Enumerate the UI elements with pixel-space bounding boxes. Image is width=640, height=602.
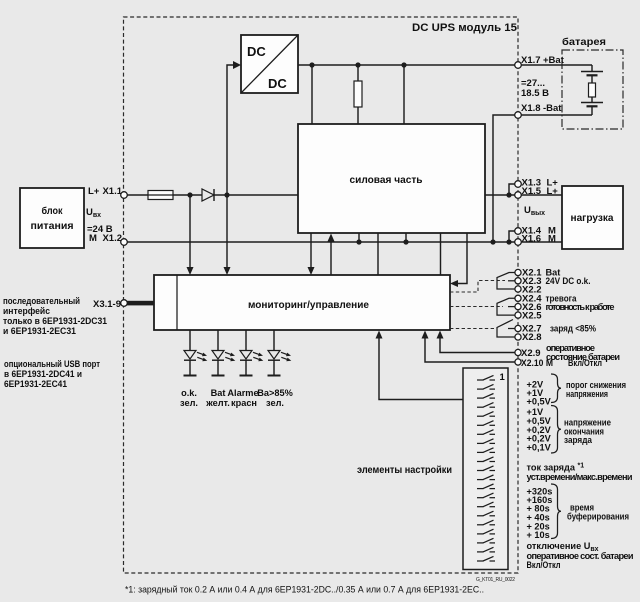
- block: силовая часть: [298, 124, 485, 233]
- wire power section to monitoring right arrow: [457, 233, 467, 284]
- dashed control line relay K3: [450, 328, 494, 330]
- DIP switch S17: [477, 520, 495, 525]
- wire DC/DC output rail to X1.7: [298, 64, 515, 66]
- svg-text:1: 1: [500, 372, 506, 383]
- svg-text:блок: блок: [42, 205, 64, 217]
- junction dot L+ rail right: [224, 192, 229, 197]
- serial interface thick bar X3.1-9: [126, 301, 154, 306]
- wire drop L+ to monitoring b: [226, 195, 228, 268]
- terminal X1.6: [515, 239, 522, 246]
- DIP switch S2: [477, 384, 495, 389]
- DIP switch S7: [477, 430, 495, 435]
- LED D1 o.k.: [184, 330, 208, 376]
- svg-text:18.5 В: 18.5 В: [521, 88, 549, 99]
- relay contact K2: [497, 298, 515, 315]
- arrow into DC/DC: [233, 61, 241, 69]
- junction dot M rail at X1.4 bracket: [506, 239, 511, 244]
- module boundary dashed box: DC UPS модуль 15: [124, 17, 519, 573]
- terminal X1.4: [515, 228, 522, 235]
- svg-text:DC: DC: [247, 44, 266, 59]
- svg-text:-Bat: -Bat: [543, 103, 562, 114]
- battery outer box dash-dot: [562, 50, 623, 129]
- terminal X1.2: [121, 239, 128, 246]
- terminal X2.9: [515, 349, 521, 355]
- wire drop to power section top c: [403, 65, 405, 124]
- LED D2 Bat: [212, 330, 236, 376]
- svg-text:6EP1931-2EC41: 6EP1931-2EC41: [4, 379, 68, 390]
- wire M rail X1.2 to load: [124, 241, 562, 243]
- wire battery to X1.8: [522, 114, 593, 116]
- dashed control line relay K2: [450, 306, 503, 308]
- arrow up into monitoring X2.10: [422, 331, 429, 339]
- svg-text:зел.: зел.: [266, 398, 284, 408]
- svg-text:буферирования: буферирования: [567, 511, 629, 521]
- svg-text:X2.8: X2.8: [522, 332, 542, 343]
- svg-text:X1.1: X1.1: [102, 186, 122, 197]
- DIP switch S3: [477, 394, 495, 399]
- svg-text:+ 10s: + 10s: [527, 530, 550, 540]
- wire X2.10 to monitoring: [425, 338, 515, 362]
- terminal X3.1-9: [121, 300, 128, 307]
- wire fuse to diode: [173, 194, 202, 196]
- svg-text:24V DC o.k.: 24V DC o.k.: [546, 276, 591, 286]
- terminal X1.5: [515, 192, 522, 199]
- DIP switch S4: [477, 403, 495, 408]
- DIP switch S20: [477, 547, 495, 552]
- svg-text:заряда: заряда: [564, 435, 593, 445]
- DIP switch S11: [477, 466, 495, 471]
- brace 2: [551, 406, 561, 454]
- wire stub power section to M rail a: [358, 233, 360, 242]
- wire drop L+ to monitoring a: [189, 195, 191, 268]
- arrow up into monitoring DIP: [376, 331, 383, 339]
- svg-text:+0,5V: +0,5V: [527, 397, 552, 407]
- wire DIP switch block to monitoring: [379, 338, 463, 400]
- DIP switch S9: [477, 448, 495, 453]
- svg-text:M: M: [548, 233, 556, 244]
- svg-text:X2.5: X2.5: [522, 310, 542, 321]
- svg-text:Alarme: Alarme: [227, 388, 258, 398]
- junction dot M rail b: [403, 239, 408, 244]
- DIP switch S21: [477, 556, 495, 561]
- DIP switch S13: [477, 484, 495, 489]
- junction dot L+ rail left: [187, 192, 192, 197]
- svg-text:X1.8: X1.8: [521, 103, 541, 114]
- svg-text:L+: L+: [88, 186, 100, 197]
- wire diode to power section: [214, 194, 298, 196]
- wire bracket X1.3: [509, 184, 515, 195]
- DIP switch S5: [477, 412, 495, 417]
- DIP switch S10: [477, 457, 495, 462]
- DIP switch S16: [477, 511, 495, 516]
- svg-text:X1.6: X1.6: [522, 233, 542, 244]
- wire X1.8 drop to M rail: [493, 115, 515, 242]
- svg-text:мониторинг/управление: мониторинг/управление: [248, 299, 369, 311]
- svg-text:DC UPS модуль 15: DC UPS модуль 15: [412, 22, 517, 34]
- svg-text:батарея: батарея: [562, 36, 606, 48]
- terminal X1.7: [515, 62, 522, 69]
- DIP switch S15: [477, 502, 495, 507]
- DIP switch S14: [477, 493, 495, 498]
- wire power section to monitoring f: [440, 233, 442, 275]
- svg-text:o.k.: o.k.: [181, 388, 197, 398]
- brace 3: [551, 484, 561, 539]
- brace 1: [551, 374, 561, 403]
- arrow into monitoring right edge: [450, 280, 458, 287]
- svg-text:Ba>85%: Ba>85%: [257, 388, 293, 398]
- junction dot M rail at X1.8 drop: [490, 239, 495, 244]
- svg-text:ток заряда *1: ток заряда *1: [527, 463, 585, 473]
- dashed control line relay K1: [450, 281, 505, 293]
- svg-text:желт.: желт.: [205, 398, 230, 408]
- arrow into monitoring c: [308, 267, 315, 275]
- svg-text:красн: красн: [231, 398, 257, 408]
- wire X1.5 to load: [518, 194, 562, 196]
- svg-text:DC: DC: [268, 76, 287, 91]
- svg-text:Uвых: Uвых: [524, 205, 545, 217]
- svg-text:питания: питания: [31, 220, 74, 232]
- svg-text:X2.10 M: X2.10 M: [521, 358, 553, 369]
- svg-text:L+: L+: [547, 186, 559, 197]
- svg-text:+Bat: +Bat: [543, 55, 565, 66]
- wire bracket X1.4: [509, 231, 515, 242]
- svg-text:Bat: Bat: [211, 388, 226, 398]
- resistor R1: [357, 65, 359, 81]
- block: нагрузка: [562, 186, 623, 249]
- junction dot output rail c: [401, 62, 406, 67]
- svg-text:Вкл/Откл: Вкл/Откл: [568, 358, 602, 368]
- svg-text:G_KT01_RU_0022: G_KT01_RU_0022: [476, 577, 515, 583]
- terminal X1.1: [121, 192, 128, 199]
- DIP switch S1: [477, 375, 495, 380]
- arrow into monitoring a: [187, 267, 194, 275]
- wire power section to monitoring e: [377, 233, 379, 275]
- DIP switch S8: [477, 439, 495, 444]
- terminal X1.8: [515, 112, 522, 119]
- fuse F1: [148, 191, 173, 200]
- junction dot output rail b: [355, 62, 360, 67]
- svg-text:X1.5: X1.5: [522, 186, 542, 197]
- block: мониторинг/управление: [154, 275, 450, 330]
- svg-text:напряжения: напряжения: [566, 389, 608, 399]
- terminals X2.1 X2.3 X2.2 X2.4 X2.6 X2.5 X2.7 X2.8: [515, 269, 521, 275]
- LED D3 Alarme: [240, 330, 264, 376]
- svg-text:элементы настройки: элементы настройки: [357, 464, 452, 476]
- svg-text:X1.2: X1.2: [102, 233, 122, 244]
- terminal X2.10: [515, 359, 521, 365]
- svg-text:уст.времени/макс.времени: уст.времени/макс.времени: [527, 472, 633, 482]
- wire X1.7 to battery: [522, 64, 593, 66]
- DIP switch S18: [477, 529, 495, 534]
- wire power section bottom to monitoring c: [310, 233, 312, 268]
- svg-text:Uвх: Uвх: [86, 207, 101, 219]
- wire X2.9 to monitoring: [440, 338, 515, 353]
- wire power section to X1.5 rail: [485, 194, 515, 196]
- svg-text:заряд <85%: заряд <85%: [550, 324, 596, 334]
- arrow up into monitoring X2.9: [437, 331, 444, 339]
- svg-text:+0,1V: +0,1V: [527, 443, 552, 453]
- wire to DC/DC input: [227, 65, 233, 195]
- svg-text:X1.7: X1.7: [521, 55, 541, 66]
- svg-text:M: M: [89, 233, 97, 244]
- LED D4 Ba>85%: [268, 330, 292, 376]
- svg-text:и 6EP1931-2EC31: и 6EP1931-2EC31: [3, 326, 77, 337]
- svg-text:X3.1-9: X3.1-9: [93, 299, 121, 310]
- diode V1: [202, 189, 214, 201]
- svg-text:Вкл/Откл: Вкл/Откл: [527, 560, 561, 570]
- terminal X1.3: [515, 181, 522, 188]
- svg-text:силовая часть: силовая часть: [350, 174, 424, 186]
- svg-text:готовность к работе: готовность к работе: [546, 302, 615, 312]
- relay contact K3: [497, 320, 515, 338]
- junction dot output rail a: [309, 62, 314, 67]
- wire L+ input rail X1.1 to fuse: [124, 194, 148, 196]
- relay contact K1: [497, 273, 515, 290]
- junction dot M rail a: [356, 239, 361, 244]
- wire monitoring to power section d: [330, 241, 332, 275]
- wire stub power section to M rail b: [405, 233, 407, 242]
- svg-text:зел.: зел.: [180, 398, 198, 408]
- block: DC/DC converter: [241, 35, 298, 93]
- battery cell stack with fuse: [591, 65, 593, 72]
- svg-text:*1: зарядный ток 0.2 А или 0.4: *1: зарядный ток 0.2 А или 0.4 А для 6EP…: [125, 585, 484, 595]
- block: DIP switches элементы настройки: [463, 368, 508, 570]
- arrow up into power section: [328, 234, 335, 242]
- svg-text:нагрузка: нагрузка: [571, 212, 614, 224]
- wire drop to power section top a: [311, 65, 313, 124]
- DIP switch S6: [477, 421, 495, 426]
- DIP switch S12: [477, 475, 495, 480]
- DIP switch S19: [477, 538, 495, 543]
- arrow into monitoring b: [224, 267, 231, 275]
- block: блок питания: [20, 188, 84, 248]
- junction dot X1.5 rail: [506, 192, 511, 197]
